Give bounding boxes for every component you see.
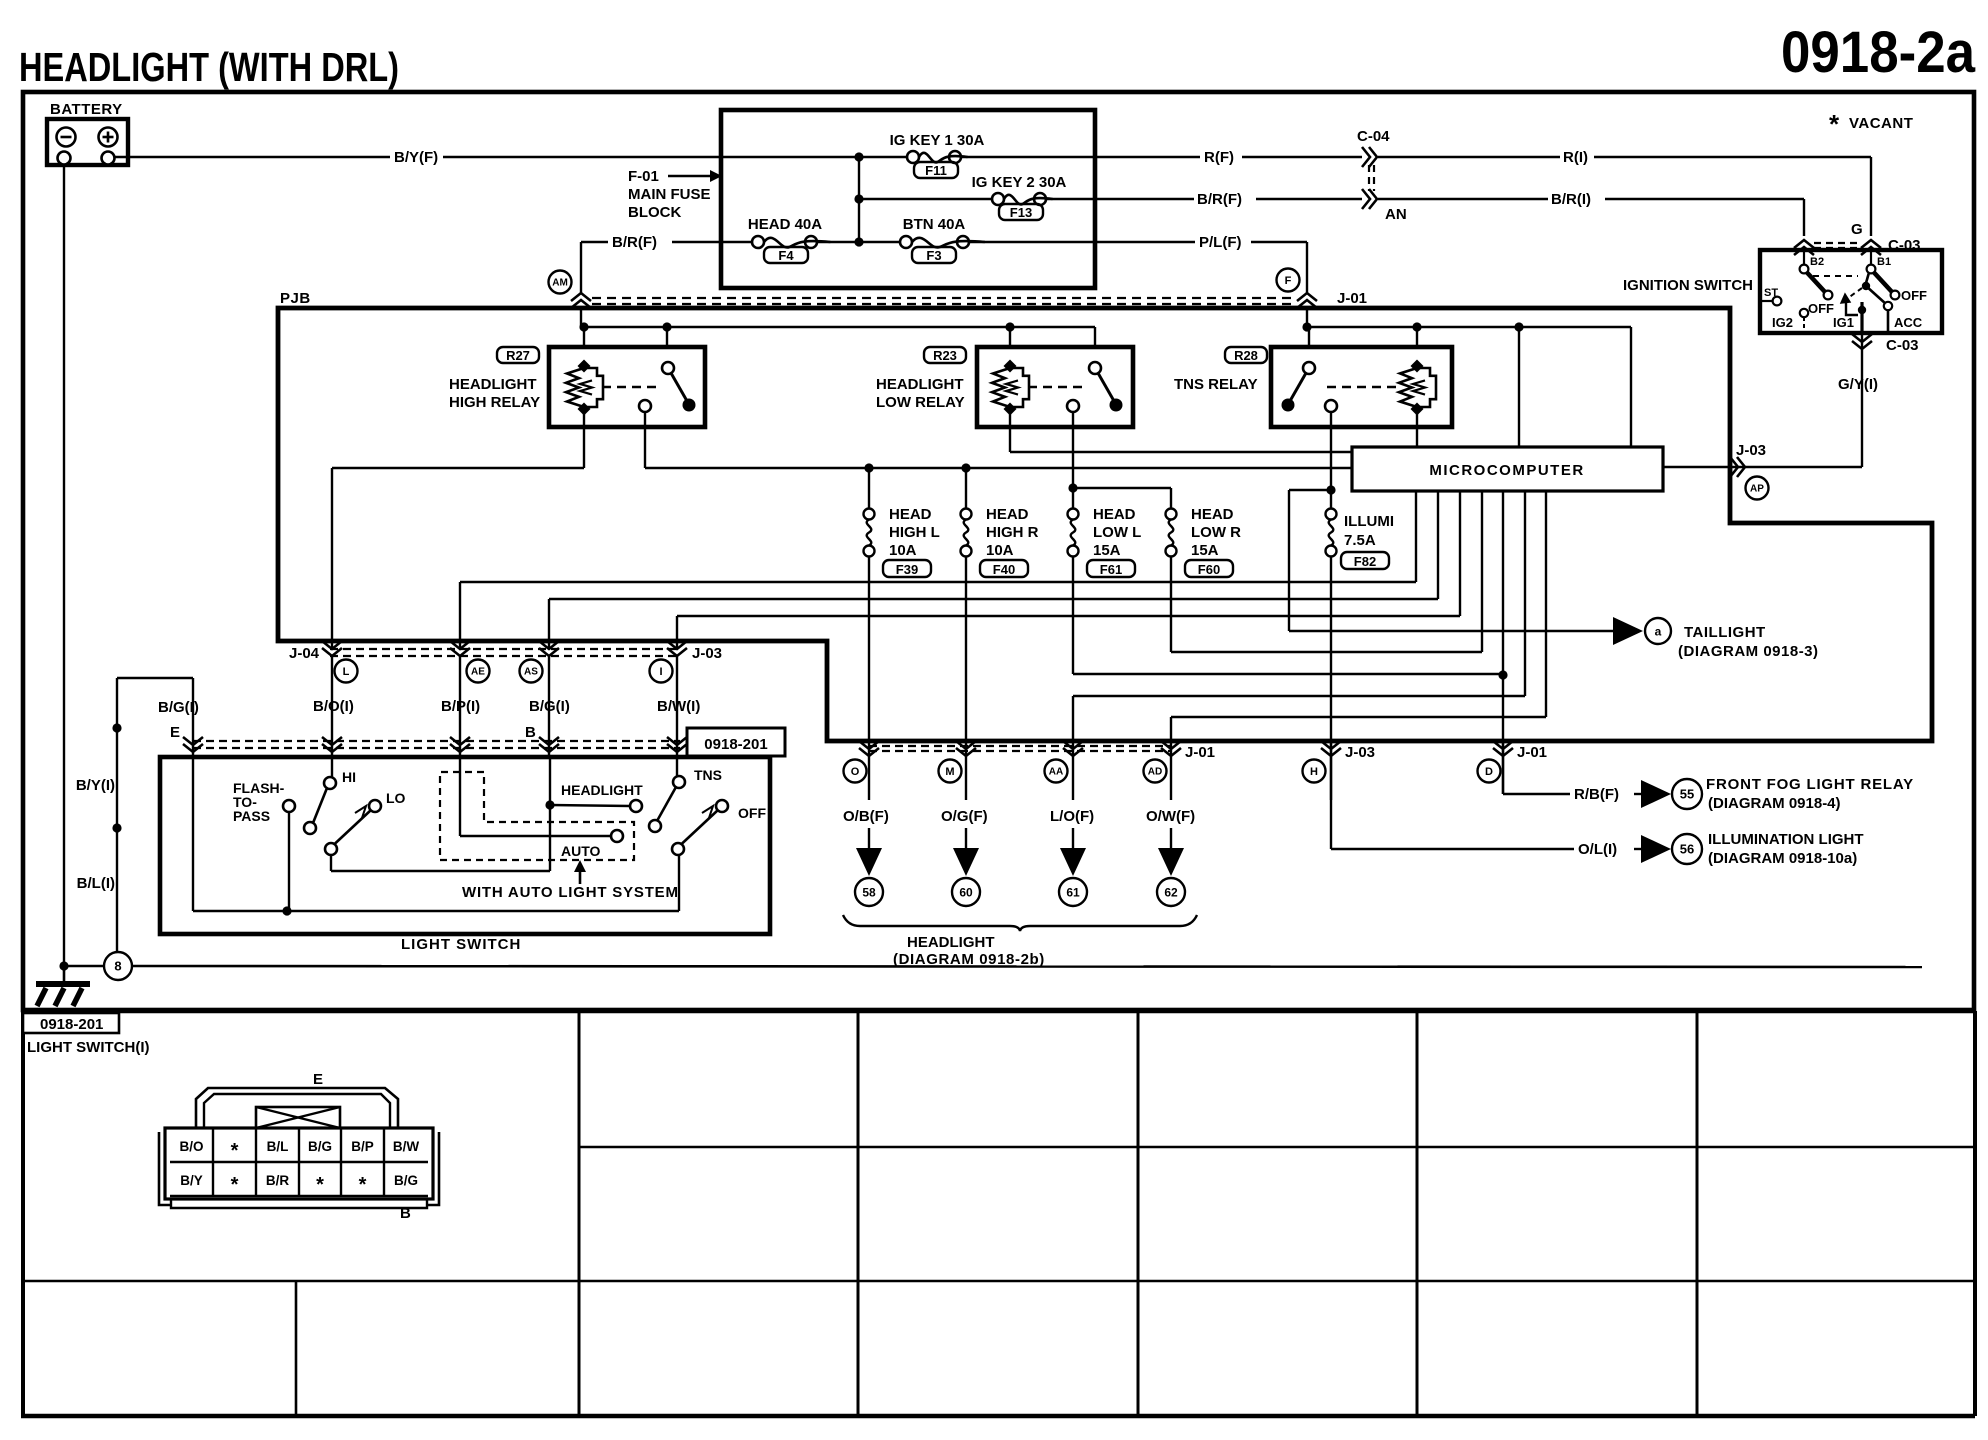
connector pin L circle (335, 660, 358, 683)
svg-text:(DIAGRAM 0918-10a): (DIAGRAM 0918-10a) (1708, 850, 1857, 867)
wire B/R(I) to ignition switch B2 (1378, 198, 1548, 200)
light switch HI arm (304, 822, 316, 834)
svg-text:B/R: B/R (266, 1173, 290, 1188)
wire P/L(F) to PJB connector F (1095, 241, 1195, 243)
svg-text:PJB: PJB (280, 290, 311, 307)
fuse block internal feed wire (858, 157, 860, 242)
svg-text:PASS: PASS (233, 808, 270, 824)
svg-text:IG2: IG2 (1772, 315, 1793, 330)
svg-text:J-01: J-01 (1337, 290, 1367, 307)
svg-text:F61: F61 (1100, 562, 1122, 577)
connector pin D circle (1478, 760, 1501, 783)
svg-text:O/W(F): O/W(F) (1146, 808, 1195, 825)
table column dividers (578, 1011, 581, 1416)
svg-text:J-03: J-03 (1736, 442, 1766, 459)
wire battery negative to ground bus (63, 165, 65, 967)
light switch LO contact and arm (369, 800, 381, 812)
svg-text:B/R(I): B/R(I) (1551, 191, 1591, 208)
fuse F60 sense wire to microcomputer (1170, 556, 1172, 652)
svg-text:P/L(F): P/L(F) (1199, 234, 1242, 251)
svg-text:WITH AUTO LIGHT SYSTEM: WITH AUTO LIGHT SYSTEM (462, 884, 679, 901)
connector drawing lock arch (196, 1088, 398, 1128)
connector C-03 chevron B1 with G label (1861, 240, 1881, 248)
svg-text:0918-2a: 0918-2a (1781, 20, 1976, 85)
svg-text:B2: B2 (1810, 256, 1824, 268)
wire B/Y(F) battery to main fuse block (115, 156, 391, 158)
table row line upper (579, 1146, 1975, 1149)
table row line lower (21, 1280, 1975, 1283)
with auto light system note (579, 864, 582, 884)
connector drawing pin grid (212, 1128, 214, 1196)
relay R27 switch output wire to fuses and microcomputer (644, 412, 646, 468)
svg-text:62: 62 (1164, 885, 1178, 899)
connector C-03 dashed link (1814, 242, 1860, 244)
svg-text:J-03: J-03 (1345, 744, 1375, 761)
wire relay feed left segment (584, 326, 1095, 328)
connector pin O circle (844, 760, 867, 783)
svg-text:*: * (1829, 109, 1840, 139)
svg-text:*: * (231, 1174, 239, 1196)
svg-text:F: F (1285, 275, 1292, 287)
fuse F4 HEAD 40A (752, 236, 764, 248)
connector pin F circle (1277, 269, 1300, 292)
svg-text:B1: B1 (1877, 256, 1891, 268)
light switch AUTO contact (459, 757, 461, 836)
svg-text:HI: HI (342, 769, 356, 785)
svg-text:C-04: C-04 (1357, 128, 1390, 145)
ignition switch dashed link B2-B1 (1813, 275, 1858, 277)
svg-text:OFF: OFF (738, 805, 766, 821)
relay R28 coil output wire to microcomputer (1416, 412, 1418, 447)
chevron J-01 AA column (1072, 741, 1074, 800)
svg-text:C-03: C-03 (1888, 237, 1921, 254)
svg-text:OFF: OFF (1808, 301, 1834, 316)
fuse F39 output wire to headlight connector O (868, 556, 870, 741)
table reference box 0918-201 (23, 1013, 119, 1033)
svg-text:AS: AS (524, 667, 538, 678)
svg-text:R(I): R(I) (1563, 149, 1588, 166)
svg-text:55: 55 (1680, 787, 1694, 802)
chevron J-04 B/G (539, 641, 559, 649)
svg-text:G/Y(I): G/Y(I) (1838, 376, 1878, 393)
junction dot fuse block feed middle (854, 194, 863, 203)
svg-text:*: * (316, 1174, 324, 1196)
connector pin AP circle (1746, 477, 1769, 500)
svg-text:IG KEY 2 30A: IG KEY 2 30A (972, 174, 1067, 191)
svg-text:IG KEY 1 30A: IG KEY 1 30A (890, 132, 985, 149)
ground bus wire (64, 965, 104, 967)
wire B/G sense to microcomputer (549, 598, 1438, 600)
svg-text:61: 61 (1066, 885, 1080, 899)
outer diagram border frame (23, 92, 1974, 1010)
svg-text:HEADLIGHT: HEADLIGHT (449, 376, 537, 393)
svg-text:F3: F3 (926, 248, 941, 263)
chevron B/W into light switch (667, 737, 687, 745)
battery positive pin (102, 152, 115, 165)
svg-text:ILLUMI: ILLUMI (1344, 513, 1394, 530)
svg-text:ILLUMINATION LIGHT: ILLUMINATION LIGHT (1708, 831, 1864, 848)
ignition switch box (1760, 250, 1942, 333)
relay R27 coil (577, 359, 590, 372)
svg-text:B/W(I): B/W(I) (657, 698, 700, 715)
chevron J-01 M column (965, 741, 967, 800)
junction dot fuse block feed bottom (854, 237, 863, 246)
svg-text:B/Y(I): B/Y(I) (76, 777, 115, 794)
fuse F61 sense wire to microcomputer (1072, 556, 1074, 674)
svg-text:G: G (1851, 221, 1863, 238)
connector circle 8 (104, 952, 132, 980)
svg-text:(DIAGRAM 0918-2b): (DIAGRAM 0918-2b) (893, 951, 1045, 968)
relay R28 coil dashed link (1327, 386, 1399, 388)
svg-text:O/L(I): O/L(I) (1578, 841, 1617, 858)
relay R27 coil dashed link (602, 386, 658, 388)
microcomputer output wire to headlight AA (1524, 491, 1526, 696)
fuse F11 IG KEY 1 30A (859, 156, 907, 158)
wire B/Y(I) B/L(I) to ground (116, 678, 118, 966)
connector pin M circle (939, 760, 962, 783)
svg-text:BTN 40A: BTN 40A (903, 216, 966, 233)
wire microcomputer to connector AP (1663, 466, 1862, 468)
svg-text:B/P: B/P (351, 1139, 374, 1154)
svg-text:AE: AE (471, 667, 485, 678)
svg-text:IG1: IG1 (1833, 315, 1854, 330)
chevron J-03 AP (1730, 457, 1738, 477)
light switch HI contact (324, 777, 336, 789)
chevron J-01 D column (1502, 741, 1504, 794)
svg-text:HEAD: HEAD (1093, 506, 1136, 523)
relay R23 coil dashed link (1028, 386, 1086, 388)
svg-text:TNS: TNS (694, 767, 722, 783)
svg-text:MAIN FUSE: MAIN FUSE (628, 186, 711, 203)
chevron E into light switch (183, 737, 203, 745)
svg-text:HIGH L: HIGH L (889, 524, 940, 541)
svg-text:a: a (1655, 624, 1662, 638)
connector pin AM circle (580, 242, 582, 293)
wire B/R(F) into fuse block (581, 241, 608, 243)
arrow to taillight (1613, 617, 1643, 645)
connector C-04 chevron R(F) (1362, 147, 1370, 167)
PJB junction block outline (278, 308, 1932, 741)
svg-text:HEAD: HEAD (986, 506, 1029, 523)
wire R(F) to connector C-04 (1095, 156, 1200, 158)
table bottom row divider (295, 1281, 298, 1416)
relay R23 box (977, 347, 1133, 427)
fuse F3 BTN 40A (900, 236, 912, 248)
svg-text:F82: F82 (1354, 554, 1376, 569)
svg-text:D: D (1485, 766, 1493, 778)
svg-text:LIGHT SWITCH: LIGHT SWITCH (401, 936, 521, 953)
wire E to light switch (117, 677, 193, 679)
svg-text:HEAD: HEAD (889, 506, 932, 523)
svg-text:B/G: B/G (394, 1173, 418, 1188)
connector J-01 dashed bus below PJB (869, 745, 1171, 747)
connector C-03 chevron below ignition switch (1861, 333, 1863, 352)
svg-text:10A: 10A (986, 542, 1014, 559)
connector circle a taillight (1645, 618, 1671, 644)
svg-text:E: E (170, 724, 180, 741)
connector drawing shell (165, 1128, 433, 1199)
light switch HEADLIGHT contact (545, 800, 554, 809)
svg-text:AM: AM (552, 278, 568, 289)
light switch internal feed wire (192, 757, 194, 911)
svg-text:B/R(F): B/R(F) (1197, 191, 1242, 208)
svg-text:I: I (659, 666, 662, 678)
svg-text:R23: R23 (933, 348, 957, 363)
fuse F82 output wire to illumination (1330, 556, 1332, 849)
svg-text:*: * (231, 1140, 239, 1162)
svg-text:B/W: B/W (393, 1139, 420, 1154)
svg-text:8: 8 (114, 959, 121, 974)
relay R23 coil output wire to microcomputer (1009, 412, 1011, 452)
svg-text:J-03: J-03 (692, 645, 722, 662)
wires J-04 to light switch (459, 582, 461, 649)
svg-text:F-01: F-01 (628, 168, 659, 185)
svg-text:0918-201: 0918-201 (704, 736, 767, 753)
svg-text:(DIAGRAM 0918-3): (DIAGRAM 0918-3) (1678, 643, 1819, 660)
svg-text:BATTERY: BATTERY (50, 101, 123, 118)
svg-text:TAILLIGHT: TAILLIGHT (1684, 624, 1766, 641)
svg-text:H: H (1310, 766, 1318, 778)
svg-text:AP: AP (1750, 484, 1764, 495)
wire to taillight branch (1289, 489, 1331, 491)
main fuse block F-01 box (721, 110, 1095, 288)
connector C-04 dashed link (1368, 165, 1370, 191)
relay R28 switch (1303, 362, 1315, 374)
svg-text:LO: LO (386, 790, 406, 806)
connector J-04 dashed bus (330, 648, 678, 650)
wire B/R(F) to connector C-04 (1095, 198, 1194, 200)
svg-text:O/G(F): O/G(F) (941, 808, 988, 825)
connector pin AE circle (467, 660, 490, 683)
relay R28 coil (1410, 359, 1423, 372)
wire R/B(F) to front fog light relay (1503, 793, 1570, 795)
svg-text:7.5A: 7.5A (1344, 532, 1376, 549)
svg-text:(DIAGRAM 0918-4): (DIAGRAM 0918-4) (1708, 795, 1841, 812)
connector reference box 0918-201 (687, 728, 785, 756)
svg-text:R27: R27 (506, 348, 530, 363)
chevron B/G into light switch with B label (539, 737, 559, 745)
svg-text:HEADLIGHT: HEADLIGHT (561, 782, 643, 798)
svg-text:O: O (851, 766, 860, 778)
svg-text:LOW R: LOW R (1191, 524, 1241, 541)
svg-text:HIGH R: HIGH R (986, 524, 1039, 541)
relay R28 box (1271, 347, 1452, 427)
svg-text:HEADLIGHT: HEADLIGHT (907, 934, 995, 951)
microcomputer wire to connector D (1502, 491, 1504, 675)
svg-text:R(F): R(F) (1204, 149, 1234, 166)
junction dot fuse block feed top (854, 152, 863, 161)
connector pin AA circle (1045, 760, 1068, 783)
relay R28 TNS RELAY tag (1225, 347, 1267, 363)
wire B/P sense to microcomputer (460, 581, 1416, 583)
connector pin H circle (1303, 760, 1326, 783)
svg-text:56: 56 (1680, 842, 1694, 857)
battery negative pin (58, 152, 71, 165)
svg-text:58: 58 (862, 885, 876, 899)
relay R23 coil (1003, 359, 1016, 372)
svg-text:AUTO: AUTO (561, 843, 601, 859)
svg-text:AD: AD (1148, 767, 1162, 778)
fuse F60 HEAD LOW R 15A (1166, 509, 1177, 520)
connector drawing crossed keyway box (256, 1107, 340, 1128)
relay R23 switch output wire to fuses F61 F60 (1072, 412, 1074, 514)
svg-text:0918-201: 0918-201 (40, 1016, 103, 1033)
svg-text:F60: F60 (1198, 562, 1220, 577)
relay R27 coil output wire to light switch HI (583, 412, 585, 468)
svg-text:B/Y(F): B/Y(F) (394, 149, 438, 166)
svg-text:E: E (313, 1071, 323, 1088)
svg-text:F40: F40 (993, 562, 1015, 577)
connector 0918-201 dashed bus (193, 740, 680, 742)
svg-text:F4: F4 (778, 248, 794, 263)
svg-text:J-04: J-04 (289, 645, 320, 662)
battery negative terminal symbol (57, 128, 76, 147)
light switch OFF contact and arm (716, 800, 728, 812)
svg-text:ACC: ACC (1894, 315, 1923, 330)
svg-text:B/L: B/L (267, 1139, 289, 1154)
svg-text:F11: F11 (925, 163, 947, 178)
connector pin AS circle (520, 660, 543, 683)
chevron F into PJB (1297, 293, 1317, 301)
relay R23 switch (1089, 362, 1101, 374)
svg-text:B/L(I): B/L(I) (77, 875, 115, 892)
chevron J-03 H column (1330, 741, 1332, 800)
connector C-03 chevron B2 (1794, 240, 1814, 248)
fuse F61 HEAD LOW L 15A (1068, 509, 1079, 520)
svg-text:AA: AA (1049, 767, 1063, 778)
svg-text:BLOCK: BLOCK (628, 204, 681, 221)
ignition switch B2 arm to OFF (1807, 273, 1825, 293)
svg-text:60: 60 (959, 885, 973, 899)
svg-text:B/O(I): B/O(I) (313, 698, 354, 715)
svg-text:B/R(F): B/R(F) (612, 234, 657, 251)
relay R27 box (549, 347, 705, 427)
chevron J-04 B/O (322, 641, 342, 649)
svg-text:15A: 15A (1191, 542, 1219, 559)
svg-text:R/B(F): R/B(F) (1574, 786, 1619, 803)
connector pin AD circle (1144, 760, 1167, 783)
svg-text:AN: AN (1385, 206, 1407, 223)
chevron J-04 B/P (450, 641, 470, 649)
wire O/L(I) to illumination light (1331, 848, 1574, 850)
svg-text:MICROCOMPUTER: MICROCOMPUTER (1429, 462, 1584, 479)
ground symbol (63, 966, 66, 984)
svg-text:HEADLIGHT: HEADLIGHT (876, 376, 964, 393)
svg-text:OFF: OFF (1901, 288, 1927, 303)
svg-text:HEADLIGHT (WITH DRL): HEADLIGHT (WITH DRL) (19, 44, 399, 90)
chevron B/O into light switch (322, 737, 342, 745)
svg-text:VACANT: VACANT (1849, 115, 1913, 132)
table outer frame (21, 1011, 25, 1416)
svg-text:R28: R28 (1234, 348, 1258, 363)
svg-text:L: L (343, 666, 350, 678)
svg-text:L/O(F): L/O(F) (1050, 808, 1094, 825)
fuse F39 HEAD HIGH L 10A (864, 509, 875, 520)
svg-text:HIGH RELAY: HIGH RELAY (449, 394, 540, 411)
chevron J-01 O column (868, 741, 870, 800)
svg-text:B: B (400, 1205, 411, 1222)
fuse F13 IG KEY 2 30A (859, 198, 992, 200)
connector J-01 dashed bus at PJB top (592, 297, 1296, 299)
auto light system dashed outline (440, 772, 634, 860)
relay R27 switch (662, 362, 674, 374)
connector pin I circle (650, 660, 673, 683)
connector C-04 chevron B/R(F) with AN label (1362, 189, 1370, 209)
light switch TNS contact (673, 776, 685, 788)
fuse F82 ILLUMI 7.5A (1326, 509, 1337, 520)
svg-text:LIGHT SWITCH(I): LIGHT SWITCH(I) (27, 1039, 149, 1056)
svg-text:F13: F13 (1010, 205, 1032, 220)
ignition switch dashed arm to IG1 (1848, 288, 1862, 298)
svg-text:B: B (525, 724, 536, 741)
svg-text:15A: 15A (1093, 542, 1121, 559)
wire relay feed right segment (1307, 326, 1631, 328)
svg-text:TNS RELAY: TNS RELAY (1174, 376, 1258, 393)
svg-text:IGNITION SWITCH: IGNITION SWITCH (1623, 277, 1753, 294)
svg-text:J-01: J-01 (1517, 744, 1547, 761)
chevron AM into PJB (571, 293, 591, 301)
chevron J-01 AD column (1170, 741, 1172, 800)
relay R23 HEADLIGHT LOW RELAY tag (924, 347, 966, 363)
svg-text:HEAD 40A: HEAD 40A (748, 216, 822, 233)
svg-text:LOW L: LOW L (1093, 524, 1141, 541)
svg-text:HEAD: HEAD (1191, 506, 1234, 523)
svg-text:O/B(F): O/B(F) (843, 808, 889, 825)
fuse F40 output wire to headlight connector M (965, 556, 967, 741)
svg-text:10A: 10A (889, 542, 917, 559)
wire B/W sense to microcomputer (677, 615, 1460, 617)
chevron J-03 B/W (667, 641, 687, 649)
table top line (21, 1009, 1975, 1014)
chevron B/P into light switch (450, 737, 470, 745)
svg-text:F39: F39 (896, 562, 918, 577)
relay R27 HEADLIGHT HIGH RELAY tag (497, 347, 539, 363)
svg-text:C-03: C-03 (1886, 337, 1919, 354)
relay R28 switch output wire to fuse F82 (1330, 412, 1332, 514)
fuse F40 HEAD HIGH R 10A (961, 509, 972, 520)
microcomputer output wire to headlight AD (1545, 491, 1547, 717)
svg-text:LOW RELAY: LOW RELAY (876, 394, 965, 411)
battery positive terminal symbol (99, 128, 118, 147)
svg-text:J-01: J-01 (1185, 744, 1215, 761)
ignition switch B1 arm to ACC (1866, 273, 1869, 284)
svg-text:B/O: B/O (179, 1139, 203, 1154)
wire G/Y(I) ignition to microcomputer (1861, 352, 1863, 467)
svg-text:M: M (945, 766, 954, 778)
light switch box (160, 757, 770, 934)
battery (47, 119, 128, 165)
microcomputer box (1352, 447, 1663, 491)
ignition switch B1 arm to OFF (1874, 273, 1892, 293)
wire R(I) to ignition switch B1 (1378, 156, 1560, 158)
svg-text:B/G: B/G (308, 1139, 332, 1154)
svg-text:*: * (359, 1174, 367, 1196)
svg-text:B/Y: B/Y (180, 1173, 203, 1188)
headlight brace (843, 915, 1197, 931)
microcomputer output wire to F60 sense (1481, 491, 1483, 652)
svg-text:FRONT FOG LIGHT RELAY: FRONT FOG LIGHT RELAY (1706, 776, 1914, 793)
